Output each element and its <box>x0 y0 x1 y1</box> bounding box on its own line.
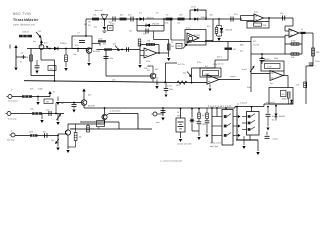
svg-text:from amp: from amp <box>7 140 15 142</box>
svg-text:10n: 10n <box>143 33 146 35</box>
svg-text:100k: 100k <box>263 25 267 27</box>
svg-text:4k7: 4k7 <box>103 44 106 46</box>
svg-text:50k: 50k <box>183 73 186 75</box>
svg-text:output: output <box>230 75 236 78</box>
svg-text:4k7: 4k7 <box>233 49 236 51</box>
svg-text:in: in <box>11 131 12 133</box>
svg-text:4k7 or: 4k7 or <box>217 56 223 59</box>
svg-text:to fsw: to fsw <box>167 85 173 88</box>
svg-text:1N4001: 1N4001 <box>279 116 286 118</box>
svg-text:10k: 10k <box>112 80 115 82</box>
svg-text:16v: 16v <box>272 120 275 122</box>
svg-text:resistor sets LED: resistor sets LED <box>177 143 192 146</box>
svg-text:BC549: BC549 <box>93 51 100 53</box>
svg-text:D3 1u: D3 1u <box>191 7 196 9</box>
svg-text:10k: 10k <box>50 68 53 70</box>
svg-text:(in): (in) <box>240 51 243 53</box>
svg-text:ThrashMaster: ThrashMaster <box>13 18 39 22</box>
svg-text:1k: 1k <box>171 42 173 44</box>
svg-text:BC549: BC549 <box>194 35 200 37</box>
svg-text:4k7: 4k7 <box>84 24 87 26</box>
svg-text:1M: 1M <box>25 57 28 59</box>
svg-text:1N4148: 1N4148 <box>225 30 233 32</box>
svg-text:1M: 1M <box>98 123 101 125</box>
svg-text:4k7: 4k7 <box>91 129 94 131</box>
svg-text:4u7: 4u7 <box>264 59 267 61</box>
svg-text:10n: 10n <box>129 31 132 33</box>
svg-text:100k: 100k <box>29 132 33 134</box>
svg-text:1N4148: 1N4148 <box>147 17 155 19</box>
svg-text:PP3: PP3 <box>177 116 181 118</box>
svg-text:4u7: 4u7 <box>205 66 208 68</box>
svg-text:1N4148: 1N4148 <box>201 17 208 19</box>
svg-text:jack: jack <box>155 122 160 124</box>
svg-text:dpdt 3pdt: dpdt 3pdt <box>210 145 218 148</box>
svg-text:10k: 10k <box>177 23 180 25</box>
svg-text:fdbk: fdbk <box>240 45 244 47</box>
svg-text:10n: 10n <box>280 13 283 15</box>
svg-text:super distortion unit: super distortion unit <box>13 23 35 26</box>
svg-text:x = connect to board pads: x = connect to board pads <box>160 160 182 163</box>
svg-text:100k lin: 100k lin <box>22 32 30 34</box>
svg-text:1N4148: 1N4148 <box>200 10 207 12</box>
svg-text:to footswitch: to footswitch <box>110 110 121 113</box>
svg-text:1k: 1k <box>155 75 157 77</box>
svg-text:10k: 10k <box>97 128 100 130</box>
svg-text:1N914: 1N914 <box>60 43 67 45</box>
svg-text:BBO TV50: BBO TV50 <box>13 12 31 16</box>
svg-text:1M: 1M <box>88 21 91 23</box>
svg-text:from amp: from amp <box>8 119 17 121</box>
svg-text:100k: 100k <box>274 58 278 60</box>
svg-text:22k: 22k <box>147 66 150 68</box>
svg-text:stomp switch: stomp switch <box>210 142 221 145</box>
svg-text:TL072: TL072 <box>253 45 260 47</box>
svg-text:100n: 100n <box>202 124 206 126</box>
svg-text:8R2: 8R2 <box>155 78 158 80</box>
svg-text:1M: 1M <box>147 41 150 43</box>
svg-text:10k: 10k <box>51 140 54 142</box>
svg-text:4k7: 4k7 <box>156 84 159 86</box>
svg-text:from board: from board <box>266 102 275 104</box>
svg-text:see text: see text <box>217 63 224 66</box>
svg-text:dist level: dist level <box>95 9 103 12</box>
svg-text:1M: 1M <box>46 101 49 103</box>
svg-text:4u7 25v: 4u7 25v <box>178 64 185 66</box>
svg-text:dist: dist <box>113 43 117 46</box>
svg-text:level: level <box>242 69 247 71</box>
svg-text:10k: 10k <box>79 137 82 139</box>
svg-text:to board: to board <box>240 102 247 105</box>
svg-text:100k: 100k <box>213 64 217 66</box>
svg-text:50k: 50k <box>171 46 174 48</box>
svg-text:rly: rly <box>237 104 239 106</box>
svg-text:10k: 10k <box>296 85 299 87</box>
svg-text:2.2M: 2.2M <box>267 67 272 69</box>
svg-text:+ 100u: + 100u <box>272 139 278 141</box>
svg-text:1M: 1M <box>38 31 41 33</box>
svg-text:47n: 47n <box>43 132 46 134</box>
svg-text:100n: 100n <box>315 61 319 63</box>
svg-text:1k: 1k <box>301 29 303 31</box>
svg-text:BC549: BC549 <box>88 106 95 108</box>
svg-text:4k7: 4k7 <box>202 115 205 117</box>
svg-text:1N4001: 1N4001 <box>282 99 288 101</box>
svg-text:1N4148: 1N4148 <box>152 24 160 26</box>
svg-text:100n: 100n <box>169 89 173 91</box>
svg-text:4k7: 4k7 <box>147 70 150 72</box>
svg-text:1M: 1M <box>316 52 319 54</box>
svg-text:bat: bat <box>94 26 97 29</box>
svg-text:footswitch: footswitch <box>208 104 232 108</box>
svg-text:from guitar: from guitar <box>8 100 18 103</box>
svg-text:9v: 9v <box>53 92 55 94</box>
svg-text:47u: 47u <box>207 26 210 28</box>
